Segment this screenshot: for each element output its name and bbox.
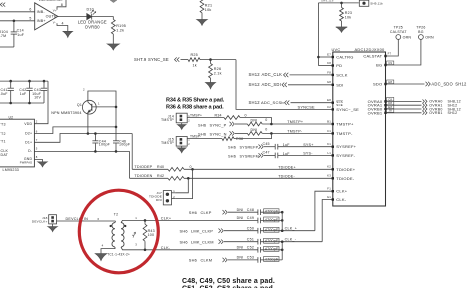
svg-text:SYSREFM: SYSREFM	[240, 154, 259, 158]
arrow OVRA0	[423, 100, 428, 104]
node junction INB+/C14	[13, 20, 16, 23]
J15 labels	[161, 138, 174, 146]
wire T2 secondary top to CLK+	[121, 220, 258, 222]
wire J14 ground stem	[181, 123, 183, 125]
svg-text:NPN MMBT3904: NPN MMBT3904	[51, 111, 82, 115]
svg-text:LM95233: LM95233	[3, 168, 20, 172]
svg-text:C48, C49, C50 share a pad.: C48, C49, C50 share a pad.	[182, 278, 275, 285]
svg-text:PD: PD	[336, 63, 342, 68]
ground tip cut off at top edge	[110, 0, 117, 3]
svg-text:SYS-: SYS-	[303, 152, 313, 156]
svg-text:1.2k: 1.2k	[116, 29, 124, 33]
wire R43 bottom stub	[144, 241, 146, 250]
svg-text:SH6: SH6	[189, 258, 197, 263]
ground R21	[197, 20, 208, 26]
node junction C51	[281, 240, 284, 243]
svg-text:D1+: D1+	[25, 141, 32, 145]
svg-text:1k: 1k	[193, 63, 197, 67]
connector J18	[49, 215, 57, 224]
wire VDD riser	[34, 81, 48, 124]
wire op-amp V+ pin 8 to top	[57, 0, 66, 10]
svg-text:G1: G1	[327, 195, 331, 199]
wire J15 ground stem	[181, 146, 183, 148]
svg-text:TDIODEP: TDIODEP	[134, 165, 152, 169]
capacitor C52	[257, 247, 259, 253]
svg-text:4700pF: 4700pF	[265, 247, 279, 251]
svg-text:4: 4	[102, 243, 104, 247]
C43 labels	[32, 88, 41, 99]
svg-text:CLK-: CLK-	[336, 197, 346, 202]
wire ADC_SCSb	[291, 102, 333, 104]
svg-text:SH6: SH6	[228, 146, 236, 150]
svg-text:LMK_CLKP: LMK_CLKP	[191, 228, 213, 233]
OVRB1 label	[429, 111, 457, 115]
svg-text:TDIODE-: TDIODE-	[336, 176, 354, 181]
svg-text:R34 & R35 Share a pad.: R34 & R35 Share a pad.	[166, 97, 225, 103]
svg-text:5: 5	[29, 17, 31, 21]
svg-text:DNI: DNI	[251, 118, 258, 122]
svg-text:R23: R23	[345, 11, 352, 15]
wire ADC_CLK	[290, 74, 333, 76]
svg-text:SYSREF-: SYSREF-	[336, 153, 355, 158]
wire PD to IC	[318, 65, 332, 67]
svg-text:OVRB1: OVRB1	[429, 111, 442, 115]
svg-text:8: 8	[36, 155, 38, 159]
svg-text:C48: C48	[247, 208, 254, 212]
bus CLK_- vertical	[281, 242, 283, 260]
resistor R26	[209, 64, 213, 79]
wire C47 to IC SYSREF-	[278, 154, 333, 156]
svg-text:10k: 10k	[205, 8, 212, 12]
svg-text:CLK+: CLK+	[161, 217, 172, 221]
svg-text:5: 5	[36, 147, 38, 151]
capacitor C51	[257, 239, 259, 245]
node junction C46 bottom	[115, 150, 118, 153]
U2 pin 5 D-	[28, 147, 38, 153]
R25 labels	[191, 53, 198, 67]
wire TDIODEN left	[130, 177, 169, 179]
wire C48 to bus	[261, 211, 283, 213]
ADC_SDO label	[431, 81, 467, 86]
svg-text:C50: C50	[247, 227, 254, 231]
U1 pin L1 SYSREF-	[327, 151, 355, 158]
ground R26	[206, 83, 216, 89]
svg-text:OVRB0: OVRB0	[85, 25, 100, 30]
capacitor C44	[92, 134, 98, 152]
transformer T2 primary dot	[110, 225, 112, 227]
node junctions C44	[94, 132, 97, 153]
resistor R38	[222, 137, 234, 141]
wire CALTRG top horizontal	[318, 2, 358, 4]
resistor R195	[111, 19, 115, 34]
svg-text:0: 0	[245, 113, 247, 117]
ground T2 primary	[95, 254, 107, 261]
svg-text:D-: D-	[28, 149, 33, 153]
svg-text:6: 6	[29, 8, 31, 12]
svg-text:DNI: DNI	[237, 246, 244, 250]
wire CLKM to C53	[228, 259, 258, 261]
ground J15	[177, 148, 186, 153]
svg-text:CALTRG: CALTRG	[336, 55, 353, 60]
C50 value box	[264, 227, 279, 232]
svg-text:SYNC~_SE: SYNC~_SE	[336, 107, 359, 112]
U1 pin C1 TMSTP-	[327, 129, 353, 136]
svg-text:R25: R25	[191, 53, 198, 57]
wire DEVCLK_IN	[57, 220, 116, 222]
U1 pin F7 CALSTAT	[363, 52, 391, 59]
node junction C48	[281, 211, 284, 214]
SH6 SYNC_N label	[198, 132, 227, 137]
transformer T2 secondary dot	[124, 225, 126, 227]
wire D- route	[34, 150, 129, 152]
svg-text:SYSREF+: SYSREF+	[336, 144, 356, 149]
C53 DNI label	[237, 256, 254, 260]
wire R42 to IC TDIODE-	[184, 177, 333, 179]
wire CALTRG vertical	[317, 3, 319, 66]
svg-text:K3: K3	[327, 174, 331, 178]
svg-text:SH6: SH6	[228, 154, 236, 158]
R21 labels	[205, 3, 212, 11]
svg-text:SCLK: SCLK	[336, 72, 347, 77]
svg-text:TDIODE+: TDIODE+	[336, 167, 355, 172]
svg-text:SYNC_N: SYNC_N	[210, 132, 227, 137]
svg-text:H8: H8	[388, 80, 392, 84]
wire op-amp V- pin 4 to ground	[57, 23, 68, 31]
arrow ADC_SDO	[426, 82, 431, 86]
svg-text:LMK_CLKM: LMK_CLKM	[191, 239, 214, 244]
U2 pin 6 D2+	[25, 129, 38, 135]
svg-text:4700pF: 4700pF	[265, 239, 279, 243]
wire CALTRG to IC	[318, 56, 332, 58]
svg-text:SH12: SH12	[455, 81, 467, 86]
U1 pin C2 SYNC~_SE	[327, 105, 359, 112]
R26 labels	[214, 67, 222, 76]
svg-text:8: 8	[61, 3, 63, 7]
C49 value box	[264, 217, 279, 222]
svg-text:10uF: 10uF	[0, 92, 8, 96]
svg-text:4700pF: 4700pF	[265, 257, 279, 261]
svg-text:CLK_-: CLK_-	[285, 238, 297, 242]
arrow ADC_SCSb	[285, 101, 290, 105]
svg-text:E7: E7	[327, 52, 331, 56]
R104 labels (cut at left edge)	[0, 30, 8, 38]
wire cap bank top rail	[0, 80, 48, 82]
arrow ADC_SDI	[282, 83, 287, 87]
svg-text:4.7M: 4.7M	[0, 34, 6, 38]
svg-text:4700pF: 4700pF	[265, 228, 279, 232]
wire CALSTAT to TP25	[386, 39, 399, 56]
svg-text:ADC_SCSb: ADC_SCSb	[261, 100, 284, 105]
capacitor C50	[257, 228, 259, 234]
svg-text:K8: K8	[327, 61, 331, 65]
diode D10 LED	[87, 10, 96, 19]
svg-text:K1: K1	[327, 142, 331, 146]
wire CLK_- riser to IC	[322, 200, 333, 242]
svg-text:DAT: DAT	[1, 153, 9, 157]
test point TP26 BG	[419, 35, 424, 40]
U2 pin 7 D1+	[25, 138, 38, 144]
wire SYSREFP to C45	[264, 146, 275, 148]
resistor R43	[143, 224, 147, 241]
resistor R25	[188, 58, 200, 62]
U1 pin C9 BG	[376, 61, 394, 68]
wire R195 to ground	[112, 34, 114, 44]
svg-text:TDIODE+: TDIODE+	[278, 165, 296, 169]
wire TDIODEN corner	[129, 151, 131, 178]
U1 pin E7 CALTRG	[327, 52, 353, 59]
ground U2	[38, 162, 48, 167]
svg-text:SYNC_P: SYNC_P	[210, 122, 227, 127]
wire R23 to ground	[341, 21, 343, 27]
svg-text:SDI: SDI	[336, 82, 343, 87]
U1 pin B1 TMSTP+	[327, 119, 354, 126]
wire R35 to IC TMSTP+	[262, 123, 333, 125]
R195 labels	[116, 24, 126, 33]
arrow OVRB1	[423, 111, 428, 115]
U1 pin F8 SCLK	[327, 70, 347, 77]
wire SDO out	[386, 83, 425, 85]
svg-text:INB-: INB-	[37, 10, 46, 14]
transformer T2 primary winding	[112, 221, 116, 247]
svg-text:C47: C47	[263, 151, 270, 155]
connector J15	[176, 137, 190, 147]
resistor R35	[247, 122, 262, 126]
wire cap bank bottom rail	[0, 102, 44, 104]
wire OVRB0 out	[386, 108, 422, 110]
svg-text:100pF: 100pF	[119, 143, 131, 147]
svg-text:SYNCSE: SYNCSE	[298, 105, 316, 110]
wire R26 stub	[210, 60, 212, 64]
svg-text:TMSTP+: TMSTP+	[287, 120, 303, 124]
svg-text:R195: R195	[116, 24, 126, 28]
node junction R25/R26	[209, 58, 212, 61]
svg-text:SH6: SH6	[189, 210, 197, 215]
svg-text:B1: B1	[327, 119, 331, 123]
arrow SYNC_P	[230, 122, 235, 126]
arrow OVRA1	[423, 103, 428, 107]
svg-text:TMSTP: TMSTP	[161, 141, 174, 145]
off-page arrow SYNC_SE	[175, 57, 180, 61]
svg-text:R34: R34	[215, 113, 222, 117]
wire R21 to ground	[201, 13, 203, 20]
wire R36 to IC TMSTP-	[262, 132, 333, 134]
wire J17 pin1 riser	[175, 178, 188, 193]
capacitor C14	[11, 21, 17, 47]
svg-text:TT3: TT3	[0, 123, 6, 127]
node junction TMSTP+	[270, 123, 273, 126]
svg-text:SYNC_SE: SYNC_SE	[148, 57, 169, 62]
C52 value box	[264, 246, 279, 251]
svg-text:C1: C1	[327, 129, 331, 133]
capacitor C43	[41, 81, 47, 103]
wire OVRA0 out	[386, 100, 422, 102]
wire R34 to TMSTP+ junction	[240, 118, 271, 125]
C49 DNI label	[237, 216, 254, 220]
svg-text:2: 2	[83, 87, 85, 91]
svg-text:TDIODE-: TDIODE-	[278, 174, 295, 178]
wire op-amp INB- input	[0, 11, 35, 13]
svg-text:C53: C53	[247, 256, 254, 260]
svg-text:T2: T2	[114, 213, 118, 217]
SH6 LMK_CLKM label	[180, 239, 214, 244]
svg-text:V-: V-	[53, 20, 56, 24]
wire R23 stub	[341, 3, 343, 8]
node junction C52	[281, 249, 284, 252]
svg-text:TDIODEN: TDIODEN	[134, 174, 152, 178]
ground op-amp V-	[63, 31, 73, 37]
svg-text:C45: C45	[263, 142, 270, 146]
resistor R34	[224, 116, 240, 120]
J18 labels	[32, 216, 48, 224]
wire C49 to bus	[261, 219, 283, 221]
J14 labels	[161, 114, 174, 122]
svg-text:SHT.9: SHT.9	[134, 57, 147, 62]
wire J17 pin2 riser	[175, 169, 192, 198]
C53 value box	[264, 257, 279, 262]
wire LMK_CLKM to C51	[224, 241, 258, 243]
svg-text:TMSTP-: TMSTP-	[336, 131, 353, 136]
svg-text:SDO: SDO	[373, 82, 382, 87]
svg-text:3: 3	[135, 243, 137, 247]
wire J15 to R38	[187, 138, 222, 140]
svg-text:OUTB: OUTB	[46, 15, 57, 19]
SH12 ADC_SDI label	[249, 82, 282, 87]
svg-text:6: 6	[98, 217, 100, 221]
svg-text:L1: L1	[327, 151, 331, 155]
C52 DNI label	[237, 246, 254, 250]
arrow SYSREFP	[259, 145, 264, 149]
U1 pin H8 SDO	[373, 80, 394, 87]
resistor R23	[340, 8, 344, 22]
svg-text:TC1-1-43X-2+: TC1-1-43X-2+	[107, 252, 130, 256]
arrow LMK_CLKM	[219, 240, 224, 244]
capacitor C42	[26, 81, 32, 103]
arrow ADC_CLK	[284, 73, 289, 77]
svg-text:1uF: 1uF	[17, 33, 24, 37]
node junction TMSTP-	[270, 132, 273, 135]
svg-text:BG: BG	[418, 30, 424, 34]
wire Q1 emitter	[87, 113, 89, 134]
svg-text:R42: R42	[157, 174, 164, 178]
SH6 LMK_CLKP label	[180, 228, 214, 233]
svg-text:BG: BG	[376, 63, 382, 68]
wire D2+ route	[34, 127, 116, 134]
svg-text:DNI: DNI	[237, 208, 244, 212]
wire SYNC_P to R35	[235, 123, 247, 125]
wire SYNCSE vertical route	[236, 60, 333, 110]
test point TP25 CALSTAT	[396, 35, 401, 40]
svg-text:OVRB1: OVRB1	[368, 110, 383, 115]
svg-text:CALSTAT: CALSTAT	[390, 30, 407, 34]
wire R43 top stub	[144, 220, 146, 224]
SH12 ADC_SCSb label	[249, 100, 285, 105]
svg-text:CLKP: CLKP	[201, 210, 212, 215]
svg-text:10V: 10V	[34, 95, 41, 99]
U1 pin K3 TDIODE-	[327, 174, 355, 181]
svg-text:F1: F1	[327, 187, 331, 191]
C51 value box	[264, 238, 279, 243]
wire J14 to R34	[187, 117, 224, 119]
svg-text:CLK-: CLK-	[161, 246, 171, 250]
svg-text:DNI: DNI	[237, 216, 244, 220]
svg-text:VDD: VDD	[24, 122, 32, 126]
wire BG to TP26	[386, 39, 421, 65]
U1 pin K8 PD	[327, 61, 342, 68]
node junction Q1 base/collector	[115, 106, 118, 109]
wire LED to R195	[92, 17, 114, 20]
node junction C50	[281, 229, 284, 232]
svg-text:0: 0	[190, 165, 192, 169]
U1 pin D8 OVRA1	[368, 101, 394, 108]
wire Q1 collector route	[88, 91, 116, 127]
svg-text:PWRPAD: PWRPAD	[20, 160, 33, 164]
connector J17	[163, 189, 175, 205]
node junction TDIODE+	[191, 168, 194, 171]
svg-text:F7: F7	[388, 52, 392, 56]
svg-text:CLK+: CLK+	[336, 189, 347, 194]
svg-text:TT1: TT1	[0, 140, 6, 144]
ground J18	[48, 227, 58, 232]
svg-text:CLK_+: CLK_+	[285, 227, 297, 231]
C44 labels	[99, 139, 111, 146]
SH12 ADC_CLK label	[249, 72, 283, 77]
svg-text:C52: C52	[247, 246, 254, 250]
SH6 CLKM label	[189, 258, 212, 263]
R43 labels	[148, 229, 155, 237]
svg-text:DEVCLK_IN: DEVCLK_IN	[66, 217, 89, 221]
TP25 labels	[390, 26, 412, 40]
ground R195	[107, 44, 119, 50]
wire OVRA1 out	[386, 104, 422, 106]
capacitor C45	[274, 144, 276, 150]
SH6 CLKP label	[189, 210, 212, 215]
U1 pin F1 CLK+	[327, 187, 347, 194]
U2 pin 2 VDD	[24, 120, 38, 126]
svg-text:DNI: DNI	[156, 198, 162, 202]
svg-text:TMSP+: TMSP+	[190, 114, 202, 118]
wire SYSREFM to C47	[264, 154, 275, 156]
svg-text:SYSREFP: SYSREFP	[240, 146, 259, 150]
C48 value box	[264, 209, 279, 214]
wire J18 ground stem	[52, 224, 54, 227]
resistor R36	[247, 132, 262, 136]
svg-text:ADC12DJXX00: ADC12DJXX00	[355, 47, 386, 52]
U2 left pin labels	[0, 123, 9, 157]
SH6 SYNC_P label	[198, 122, 227, 127]
node junction emitter rail	[87, 132, 90, 135]
node junction CALTRG	[317, 56, 320, 59]
wire T2 secondary bottom to CLK-	[121, 247, 258, 250]
svg-text:LMH5401-SEP: LMH5401-SEP	[39, 0, 65, 2]
svg-text:1: 1	[135, 216, 137, 220]
node junction CLK- R43	[144, 249, 147, 252]
svg-text:K2: K2	[327, 165, 331, 169]
bus CLK_+ vertical	[281, 212, 283, 231]
transformer tap arrow	[132, 232, 136, 238]
wire R25 to corner	[200, 59, 236, 61]
wire R40 to IC TDIODE+	[184, 168, 333, 170]
wire op-amp output	[58, 16, 87, 18]
wire CLKP to C48	[228, 211, 258, 213]
svg-text:C51: C51	[247, 238, 254, 242]
svg-text:SH9,11b: SH9,11b	[321, 0, 334, 2]
resistor R42	[168, 176, 184, 180]
wire SYNC_SE to R25	[181, 59, 189, 61]
wire U2 GND to ground	[34, 160, 42, 162]
J17 labels	[149, 191, 162, 202]
svg-text:TMSP-: TMSP-	[190, 135, 201, 139]
svg-text:U2: U2	[9, 115, 14, 119]
